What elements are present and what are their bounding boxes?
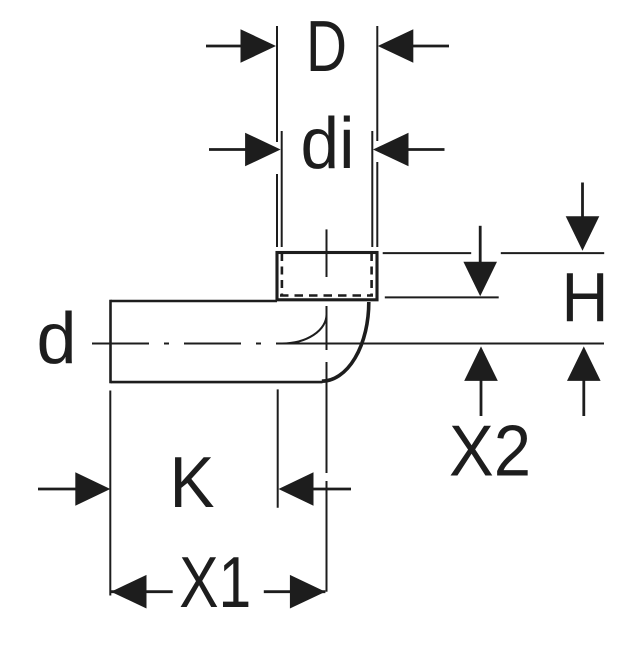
extension line D left <box>276 26 278 142</box>
extension line K right <box>277 389 279 507</box>
arrow di left <box>209 148 246 151</box>
arrow D left <box>206 45 241 48</box>
insertion depth reference line <box>385 296 499 298</box>
socket inner dashed bottom (insertion depth) <box>280 294 373 297</box>
extension line di left <box>281 131 283 247</box>
svg-text:K: K <box>170 443 215 523</box>
vertical centerline segment below bend <box>326 362 328 473</box>
socket body outline <box>277 253 377 300</box>
elbow inner bend arc (centerline fillet) <box>282 315 327 344</box>
arrow H top (down) <box>581 183 584 219</box>
extension line D right <box>376 26 378 141</box>
horizontal centerline extension right (solid) <box>282 343 604 345</box>
horizontal centerline d (dash-dot) <box>92 343 282 345</box>
vertical centerline segment to X1 <box>326 481 328 592</box>
arrow X1 left (points left) <box>111 575 147 609</box>
svg-text:X2: X2 <box>449 412 531 492</box>
svg-text:d: d <box>36 299 76 379</box>
socket top reference line left segment <box>383 252 472 254</box>
svg-text:H: H <box>562 258 609 336</box>
pipe top edge <box>111 300 278 303</box>
arrow H bottom (up) <box>582 379 585 416</box>
X1 dimension line left segment <box>111 590 173 593</box>
arrow X2 (up) <box>480 379 483 416</box>
svg-text:X1: X1 <box>179 543 251 623</box>
vertical centerline segment in bend <box>326 306 328 350</box>
arrow D right <box>413 45 449 48</box>
svg-text:di: di <box>301 104 355 184</box>
svg-text:D: D <box>306 7 347 87</box>
X1 dimension line right segment <box>264 590 326 593</box>
arrow K right <box>313 488 351 491</box>
arrow K left <box>38 488 76 491</box>
arrow X1 right (points right) <box>290 575 326 609</box>
extension line di right <box>371 131 373 247</box>
socket inner dashed left wall <box>281 253 284 296</box>
arrow di right <box>409 148 445 151</box>
socket top reference line right segment <box>501 252 604 254</box>
arrow insertion depth (down) <box>479 226 482 263</box>
extension line K/X1 left <box>109 391 111 596</box>
socket inner dashed right wall <box>370 253 373 296</box>
pipe left end <box>109 300 112 384</box>
vertical centerline segment above socket <box>326 229 328 277</box>
elbow outer bend arc <box>322 302 369 381</box>
pipe bottom edge <box>111 381 323 384</box>
